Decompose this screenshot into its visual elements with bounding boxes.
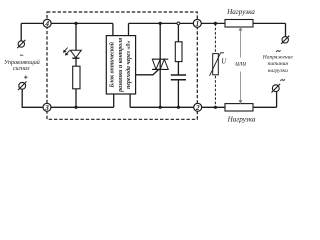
svg-text:Напряжение: Напряжение: [262, 55, 294, 61]
svg-text:Блок оптической: Блок оптической: [108, 41, 115, 88]
svg-text:1: 1: [195, 19, 199, 28]
svg-text:питания: питания: [268, 61, 289, 67]
svg-text:нагрузки: нагрузки: [268, 68, 288, 74]
svg-text:или: или: [235, 59, 246, 68]
svg-text:Нагрузка: Нагрузка: [226, 8, 255, 16]
svg-text:4: 4: [44, 19, 49, 28]
svg-text:2: 2: [195, 103, 200, 112]
svg-text:Нагрузка: Нагрузка: [227, 115, 256, 123]
svg-text:3: 3: [44, 103, 49, 112]
svg-text:развязки и контроля: развязки и контроля: [118, 38, 124, 93]
svg-text:сигнал: сигнал: [13, 66, 30, 72]
svg-text:перехода через «0»: перехода через «0»: [125, 41, 132, 89]
